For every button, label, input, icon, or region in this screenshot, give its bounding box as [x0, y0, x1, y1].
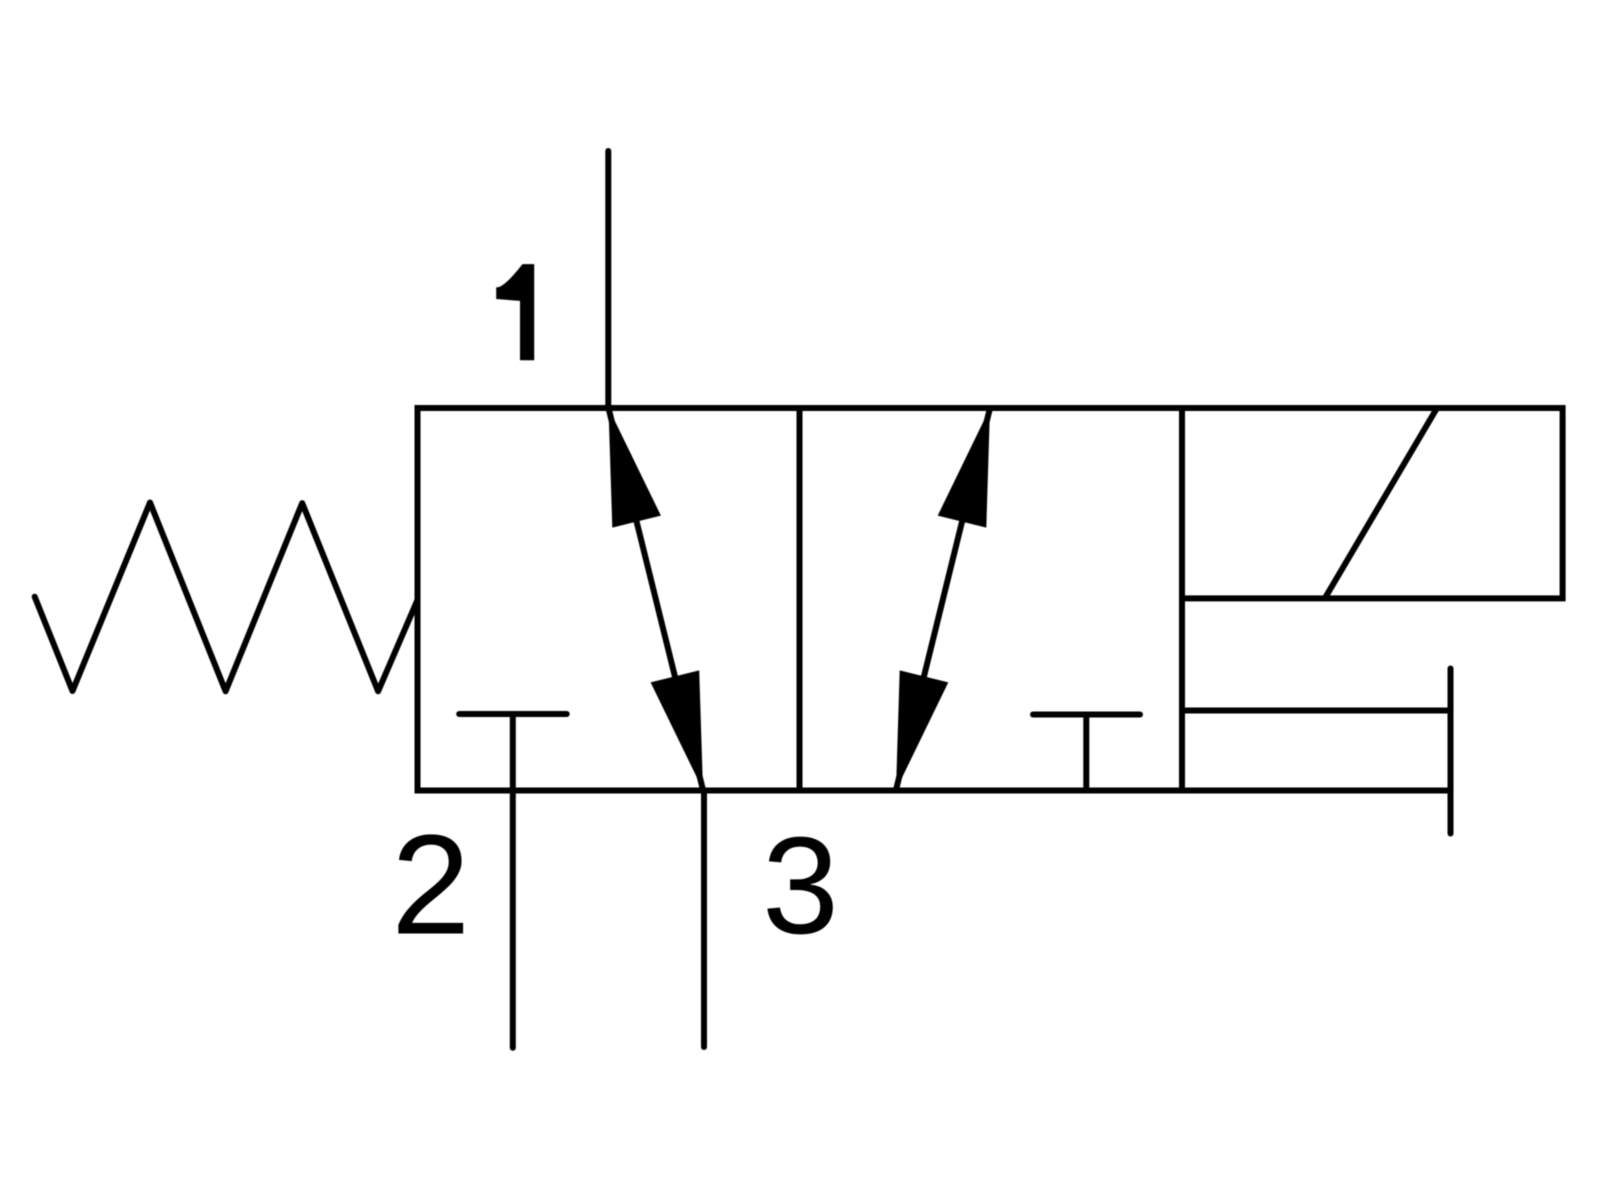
port label 1 (drawn glyph) — [496, 264, 534, 360]
arrowhead top (box 2 arrow) — [938, 408, 990, 528]
valve position box 1 (left square) — [418, 408, 800, 791]
blocked port T stem (box 2) — [1083, 715, 1089, 791]
arrowhead bottom (box 1 arrow) — [651, 670, 703, 790]
port 3 connection line — [701, 791, 707, 1048]
blocked port T bar (box 2) — [1033, 712, 1140, 718]
solenoid coil box — [1182, 408, 1563, 598]
arrowhead bottom (box 2 arrow) — [896, 670, 948, 790]
svg-text:3: 3 — [762, 809, 839, 963]
blocked port T bar (box 1, port 2) — [459, 711, 567, 717]
port 1 connection line — [605, 151, 611, 408]
solenoid coil diagonal stroke — [1325, 408, 1437, 598]
pilot end bar — [1448, 669, 1454, 834]
arrowhead top (box 1 arrow) — [609, 408, 661, 528]
pilot line lower horizontal (bottom edge extension) — [1184, 788, 1451, 794]
pilot line upper horizontal — [1182, 708, 1451, 714]
valve position box 2 (right square) — [800, 408, 1183, 791]
spring return (zigzag) — [35, 503, 418, 692]
flow path arrow shaft (box 1, port 1 to 3) — [609, 408, 704, 790]
svg-text:2: 2 — [391, 806, 470, 965]
flow path arrow shaft (box 2, port 1 to 2) — [896, 408, 990, 790]
port 2 connection line with blocked-port T stem — [510, 714, 516, 1048]
